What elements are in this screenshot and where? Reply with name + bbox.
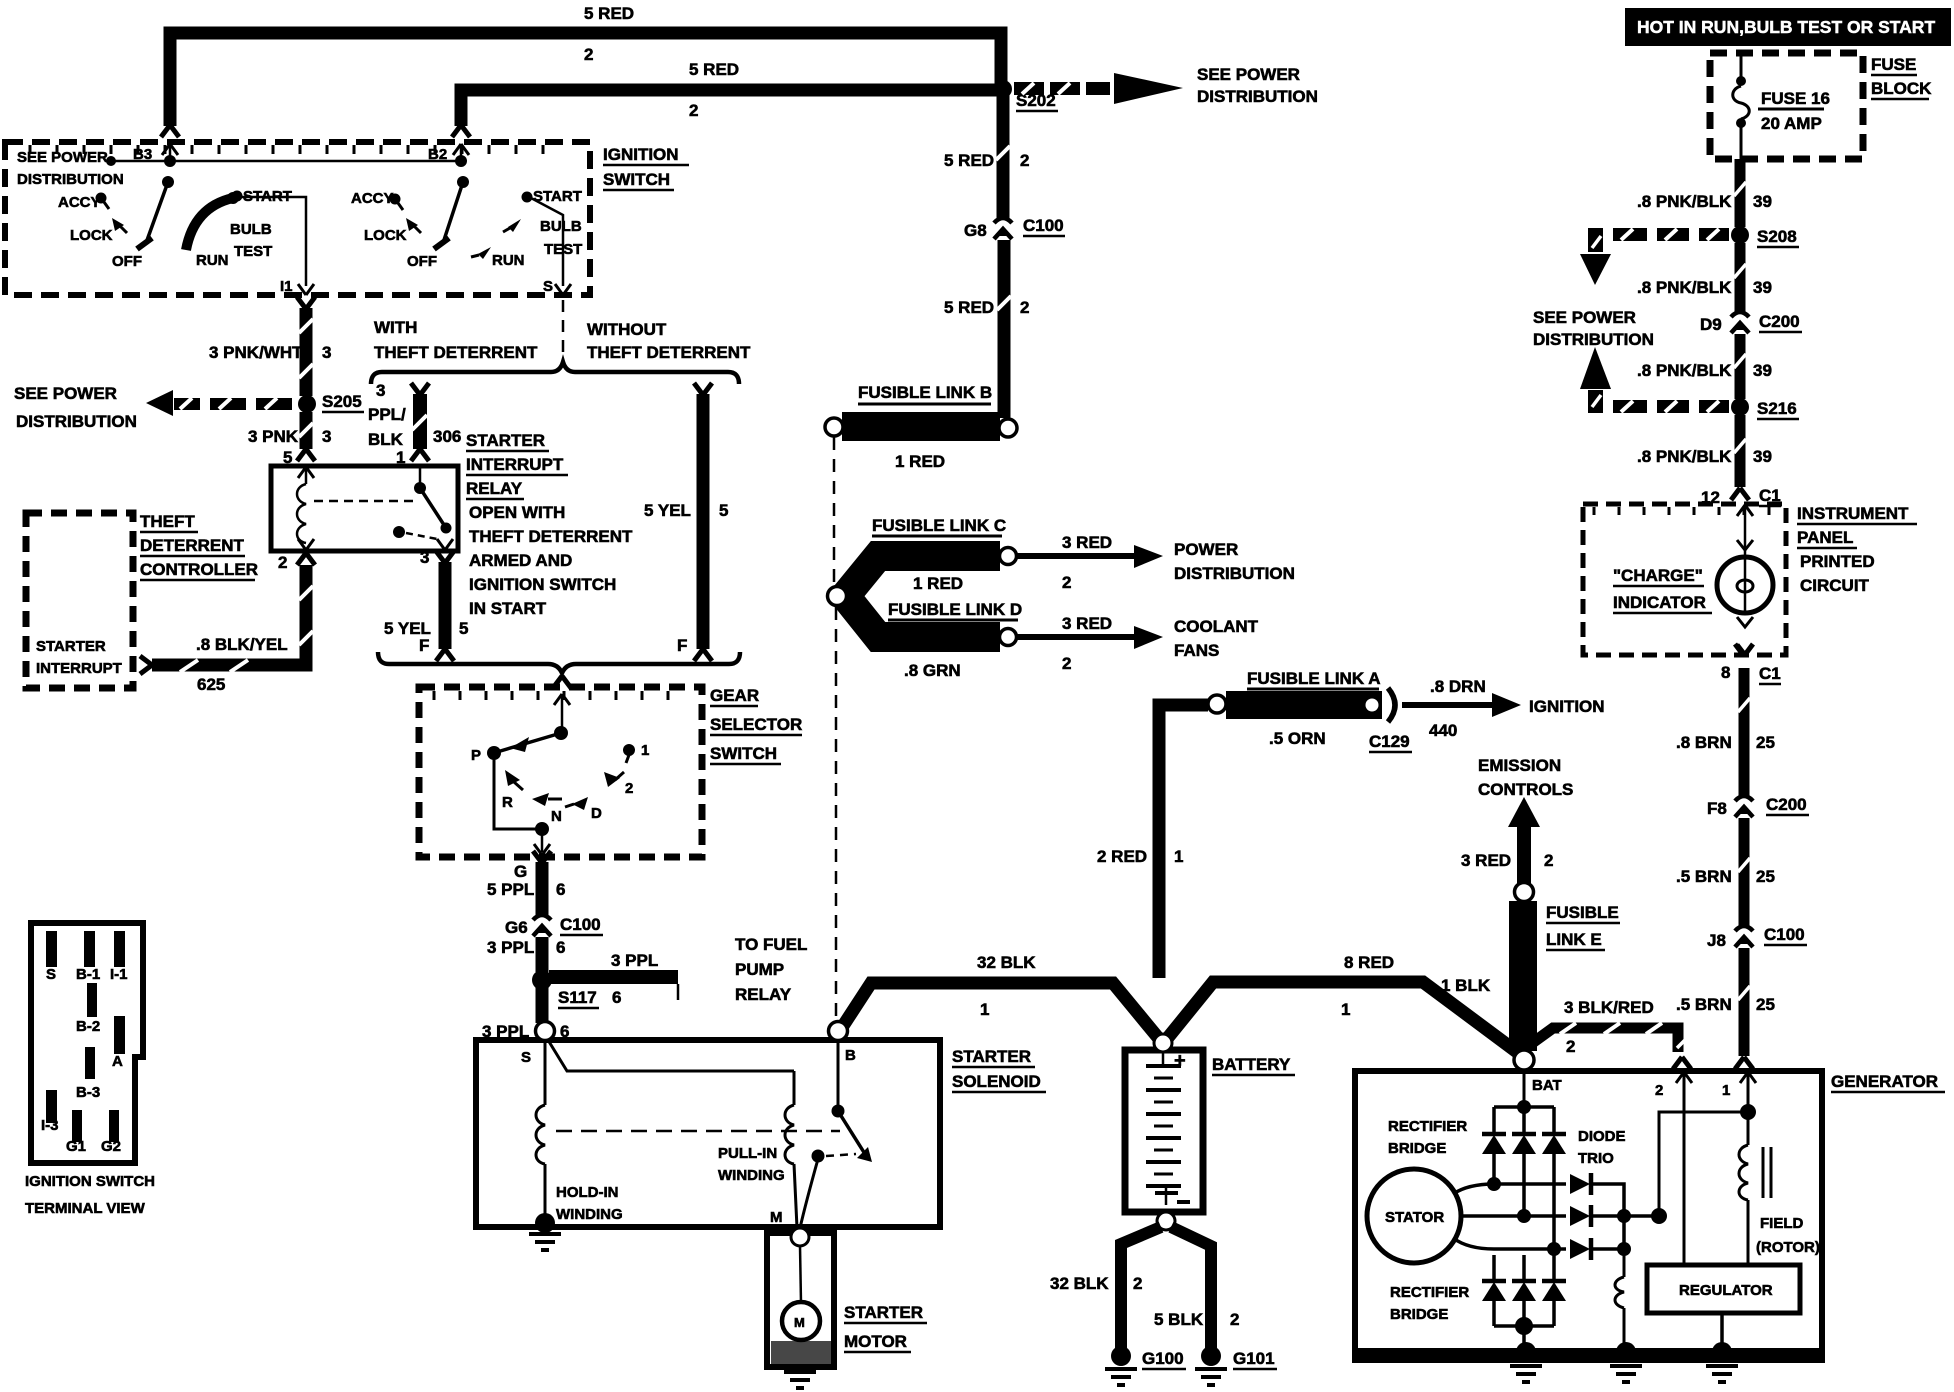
label .8 PNK/BLK 39 [1637,361,1772,380]
label 5 YEL 5 F (right) [644,501,728,655]
svg-text:M: M [794,1315,805,1330]
svg-text:RECTIFIER: RECTIFIER [1388,1118,1467,1135]
svg-text:3 BLK/RED: 3 BLK/RED [1564,998,1654,1017]
svg-text:WINDING: WINDING [556,1206,623,1223]
fuse FUSE 16 20 AMP [1733,53,1830,160]
svg-text:GEAR: GEAR [710,686,759,705]
ground solenoid [529,1234,561,1250]
wire stator phase 2 [1461,1209,1566,1223]
svg-text:39: 39 [1753,192,1772,211]
svg-text:5 YEL: 5 YEL [644,501,691,520]
svg-text:CONTROLLER: CONTROLLER [140,560,258,579]
wire 5 PPL gear selector to C100 [514,851,551,916]
ground starter motor [784,1372,816,1388]
svg-text:FUSE 16: FUSE 16 [1761,89,1830,108]
ground rectifier [1510,1342,1542,1382]
svg-text:LINK E: LINK E [1546,930,1602,949]
svg-text:OFF: OFF [407,253,437,270]
node B2 junction [455,155,469,188]
svg-text:INTERRUPT: INTERRUPT [466,455,564,474]
svg-text:2: 2 [1062,573,1071,592]
svg-text:5 RED: 5 RED [944,151,994,170]
svg-text:INSTRUMENT: INSTRUMENT [1797,504,1909,523]
diode rectifier top 3 [1542,1107,1566,1247]
wire hatched arrow S208 to power distribution [1580,228,1729,285]
connector C100 (G6) [505,915,603,937]
label 32 BLK 2 (ground leg) [1050,1274,1142,1293]
svg-text:2: 2 [278,553,287,572]
svg-text:2: 2 [689,101,698,120]
svg-text:5 PPL: 5 PPL [487,880,534,899]
svg-text:2: 2 [1020,151,1029,170]
svg-text:SOLENOID: SOLENOID [952,1072,1041,1091]
svg-text:2: 2 [1062,654,1071,673]
svg-text:440: 440 [1429,721,1457,740]
svg-text:.5 ORN: .5 ORN [1269,729,1326,748]
splice S117 [532,970,599,1008]
svg-text:PRINTED: PRINTED [1800,552,1875,571]
svg-text:3 PNK: 3 PNK [248,427,299,446]
ground G100 [1105,1346,1186,1385]
svg-text:B: B [845,1047,856,1064]
wire 3 PNK S205 to relay pin 5 [297,412,315,461]
svg-text:C129: C129 [1369,732,1410,751]
label 3 RED 2 (lower arrow) [1062,614,1112,673]
contact 2 [604,772,633,797]
diode rectifier bottom 2 [1512,1255,1536,1348]
svg-text:5 RED: 5 RED [689,60,739,79]
wire rectifier bottom bus [1494,1317,1554,1335]
svg-text:32 BLK: 32 BLK [1050,1274,1109,1293]
svg-text:5: 5 [719,501,728,520]
diode trio 3 [1570,1216,1631,1260]
svg-text:3 RED: 3 RED [1062,533,1112,552]
svg-text:SEE POWER: SEE POWER [1197,65,1300,84]
label FUSE BLOCK [1871,55,1932,99]
label WITHOUT THEFT DETERRENT [587,320,751,362]
svg-text:S: S [521,1049,531,1066]
svg-text:2: 2 [1566,1037,1575,1056]
svg-text:.8 DRN: .8 DRN [1430,677,1486,696]
svg-text:OPEN WITH: OPEN WITH [469,503,565,522]
svg-text:C200: C200 [1766,795,1807,814]
label 3 PPL/BLK 306 pin 1 [368,381,461,467]
svg-text:PANEL: PANEL [1797,528,1853,547]
svg-text:IN START: IN START [469,599,547,618]
label EMISSION CONTROLS [1478,756,1573,799]
label RECTIFIER BRIDGE (top) [1388,1118,1467,1157]
contact ACCY (left) [58,193,109,212]
svg-text:J8: J8 [1707,931,1726,950]
svg-text:39: 39 [1753,361,1772,380]
diode trio 1 [1570,1173,1624,1214]
label 5 RED 2 (upper) [944,151,1029,170]
fuse block box [1710,53,1863,159]
svg-text:C100: C100 [560,915,601,934]
label 3 PPL 6 [487,938,565,957]
svg-text:.8 PNK/BLK: .8 PNK/BLK [1637,361,1732,380]
terminal 1 generator [1722,1072,1756,1112]
svg-text:D9: D9 [1700,315,1722,334]
label 3 RED 2 (upper arrow) [1062,533,1112,592]
svg-text:6: 6 [556,938,565,957]
wire arrow .8 DRN to ignition [1402,693,1521,717]
wiper gear selector [497,733,561,752]
terminal B2 [428,125,470,163]
relay stationary contact [393,526,437,539]
svg-text:FUSIBLE LINK C: FUSIBLE LINK C [872,516,1006,535]
svg-text:1: 1 [1722,1082,1730,1099]
svg-text:B-3: B-3 [76,1084,100,1101]
terminal 2 generator [1655,1072,1692,1265]
svg-text:S117: S117 [558,988,597,1007]
svg-text:(ROTOR): (ROTOR) [1756,1239,1820,1256]
svg-text:IGNITION SWITCH: IGNITION SWITCH [25,1173,155,1190]
svg-text:BAT: BAT [1532,1077,1562,1094]
contact RUN wiper arc (left) [186,192,239,269]
svg-text:3 PPL: 3 PPL [611,951,658,970]
label FIELD (ROTOR) [1756,1215,1820,1256]
label INSTRUMENT PANEL PRINTED CIRCUIT [1797,504,1917,595]
svg-text:CONTROLS: CONTROLS [1478,780,1573,799]
svg-text:P: P [471,747,481,764]
connector C1 pin 8 below instrument panel [1721,644,1781,684]
wire stator phase 3 [1453,1238,1566,1256]
wire 3 PPL branch to fuel pump relay [549,951,678,1007]
wire START to S exit [531,198,571,295]
battery cells [1146,1052,1190,1205]
svg-text:S205: S205 [322,392,362,411]
wire dashed links C/D to solenoid B [835,607,838,1026]
label 5 RED (bus 2) [689,60,739,120]
terminal B solenoid [829,1022,857,1065]
node gear selector feed [554,726,568,740]
svg-text:D: D [591,805,602,822]
svg-text:DISTRIBUTION: DISTRIBUTION [1197,87,1318,106]
starter motor armature [782,1302,820,1340]
svg-text:DETERRENT: DETERRENT [140,536,245,555]
svg-text:INTERRUPT: INTERRUPT [36,660,122,677]
svg-text:G101: G101 [1233,1349,1275,1368]
svg-text:+: + [1174,1050,1186,1072]
terminal B-3 bar [76,1047,100,1101]
svg-text:HOT IN RUN,BULB TEST OR START: HOT IN RUN,BULB TEST OR START [1637,17,1935,37]
label .8 BRN 25 [1676,733,1775,752]
starter motor shading [771,1341,831,1364]
label 1 BLK [1441,976,1491,995]
svg-text:I1: I1 [280,278,293,295]
label IGNITION SWITCH [603,145,689,190]
svg-text:F: F [419,636,429,655]
wiper right wafer [443,182,463,243]
ignition switch terminal view outline [31,923,143,1163]
ticks instrument panel box top edge [1594,507,1769,515]
gear selector switch box [419,687,702,857]
svg-text:FUSIBLE LINK D: FUSIBLE LINK D [888,600,1022,619]
svg-text:MOTOR: MOTOR [844,1332,907,1351]
wire .8 PNK/BLK S216 to C1 [1734,415,1746,487]
svg-text:SWITCH: SWITCH [710,744,777,763]
label .8 GRN (link D) [904,661,961,680]
svg-text:2: 2 [1655,1082,1663,1099]
svg-text:32 BLK: 32 BLK [977,953,1036,972]
svg-text:TRIO: TRIO [1578,1150,1614,1167]
svg-text:5: 5 [459,619,468,638]
wire .8 BRN C1 to C200 [1738,668,1750,796]
label 3 BLK/RED 2 [1564,998,1654,1056]
svg-text:FUSIBLE LINK A: FUSIBLE LINK A [1247,669,1380,688]
svg-text:PPL/: PPL/ [368,405,406,424]
svg-text:LOCK: LOCK [364,227,407,244]
svg-text:BRIDGE: BRIDGE [1390,1306,1448,1323]
label 32 BLK 1 [977,953,1036,1019]
svg-text:CIRCUIT: CIRCUIT [1800,576,1870,595]
label SEE POWER DISTRIBUTION (left) [14,384,137,431]
splice S202 [994,80,1058,111]
fusible link C [842,516,1006,600]
field rotor coil [1739,1112,1748,1265]
svg-text:A: A [112,1053,123,1070]
svg-text:STARTER: STARTER [36,638,106,655]
wire hatched arrow S216 to power distribution [1580,347,1729,413]
label RECTIFIER BRIDGE (bottom) [1390,1284,1469,1323]
svg-text:OFF: OFF [112,253,142,270]
svg-text:RELAY: RELAY [735,985,792,1004]
label GEAR SELECTOR SWITCH [710,686,802,764]
wire 5 BLK battery to G101 [1171,1227,1211,1350]
label 3 PPL 6 (lower) [482,1022,569,1041]
svg-text:25: 25 [1756,995,1775,1014]
terminal M solenoid [770,1209,809,1246]
svg-text:2: 2 [1544,851,1553,870]
label POWER DISTRIBUTION [1174,540,1295,583]
starter solenoid box [476,1040,940,1227]
svg-text:BLOCK: BLOCK [1871,79,1932,98]
ground resistor [1610,1342,1642,1382]
wire .8 PNK/BLK C200 to S216 [1734,334,1746,399]
connector C200 (D9) [1700,312,1802,334]
svg-text:3 PPL: 3 PPL [487,938,534,957]
wire dashed link B to links C/D [833,437,836,585]
node B3 junction [162,155,176,188]
label 5 RED (bus 1) [584,4,634,64]
fusible link D [842,592,1022,637]
wire 3 PNK/WHT ignition I1 to S205 [297,297,315,396]
svg-text:DISTRIBUTION: DISTRIBUTION [17,171,124,188]
svg-text:COOLANT: COOLANT [1174,617,1259,636]
label COOLANT FANS [1174,617,1259,660]
label "CHARGE" INDICATOR [1613,566,1712,613]
svg-text:DISTRIBUTION: DISTRIBUTION [1533,330,1654,349]
node fusible link B left [825,418,843,436]
contact OFF (left) [112,238,152,270]
svg-text:"CHARGE": "CHARGE" [1613,566,1703,585]
svg-text:1: 1 [641,742,649,759]
diode rectifier top 2 [1512,1107,1536,1214]
svg-text:1 RED: 1 RED [895,452,945,471]
label .8 PNK/BLK 39 [1637,278,1772,297]
label SEE POWER DISTRIBUTION (right) [1533,308,1654,349]
node fusible link A left [1208,695,1226,713]
label IGNITION SWITCH TERMINAL VIEW [25,1173,155,1217]
svg-text:RECTIFIER: RECTIFIER [1390,1284,1469,1301]
wire 3 PPL C100 to S117 [536,937,549,972]
ticks gear selector box top edge [434,691,668,700]
svg-text:.8 BRN: .8 BRN [1676,733,1732,752]
svg-text:POWER: POWER [1174,540,1238,559]
solenoid switch contact [832,1041,873,1162]
label .8 BLK/YEL 625 [196,635,288,694]
svg-text:WITH: WITH [374,318,417,337]
wire .8 PNK/BLK S208 to C200 [1734,243,1746,312]
connector C1 pin 12 at instrument panel [1701,486,1781,507]
connector C200 (F8) [1707,795,1809,818]
wire 3 PPL/BLK 306 to relay pin 1 [411,383,429,461]
svg-text:S: S [46,966,56,983]
label GENERATOR [1831,1072,1945,1092]
hold-in winding [536,1040,794,1223]
theft deterrent controller box [26,513,133,688]
stator [1367,1169,1461,1263]
brace with/without theft deterrent [371,362,739,384]
label 1 RED (link B) [895,452,945,471]
svg-text:25: 25 [1756,867,1775,886]
svg-text:.8 PNK/BLK: .8 PNK/BLK [1637,192,1732,211]
label SEE POWER DISTRIBUTION (in box) [17,149,124,188]
label 1 RED (link C) [913,574,963,593]
svg-text:3: 3 [420,548,429,567]
svg-text:FUSIBLE: FUSIBLE [1546,903,1619,922]
svg-text:PUMP: PUMP [735,960,784,979]
svg-text:2 RED: 2 RED [1097,847,1147,866]
label WITH THEFT DETERRENT [374,318,538,362]
terminal G2 bar [101,1110,121,1155]
solenoid moving contact [800,1150,856,1229]
label 8 RED 1 [1341,953,1394,1019]
svg-text:LOCK: LOCK [70,227,113,244]
wire 5 RED bus to B3 [170,33,1001,126]
svg-text:39: 39 [1753,447,1772,466]
svg-text:3 RED: 3 RED [1062,614,1112,633]
svg-text:FANS: FANS [1174,641,1219,660]
svg-text:RELAY: RELAY [466,479,523,498]
diode rectifier bottom 1 [1482,1255,1506,1326]
svg-text:25: 25 [1756,733,1775,752]
contact LOCK (left) [70,218,127,244]
svg-text:IGNITION SWITCH: IGNITION SWITCH [469,575,616,594]
connector C100 (J8) [1707,925,1807,950]
svg-text:39: 39 [1753,278,1772,297]
contact BULB TEST (right) [503,218,582,258]
svg-text:C200: C200 [1759,312,1800,331]
svg-text:G1: G1 [66,1138,86,1155]
svg-text:2: 2 [625,780,633,797]
svg-text:TEST: TEST [234,243,272,260]
label STARTER INTERRUPT RELAY [466,431,633,618]
svg-text:THEFT: THEFT [140,512,195,531]
wire 5 RED C100 to fusible link B [997,240,1011,418]
label 3 PNK 3 pin 5 [248,427,331,467]
rectifier BAT bus [1494,1070,1554,1114]
contact 1 [623,742,649,763]
svg-text:SEE POWER: SEE POWER [14,384,117,403]
splice S216 [1731,398,1799,419]
diode rectifier bottom 3 [1542,1255,1566,1326]
svg-text:STARTER: STARTER [952,1047,1031,1066]
svg-text:I-3: I-3 [41,1117,59,1134]
wire 5 YEL relay pin 3 to F [420,548,454,661]
splice S208 [1731,226,1799,247]
svg-text:SWITCH: SWITCH [603,170,670,189]
wire START to I1 exit [241,197,314,295]
svg-text:8: 8 [1721,663,1730,682]
svg-text:BATTERY: BATTERY [1212,1055,1291,1074]
wire .5 BRN C200 to C100 [1738,818,1750,926]
wire .8 PNK/BLK fuse to S208 [1734,159,1746,227]
fusible link B [842,383,1000,441]
wire stator phase 1 [1453,1177,1566,1194]
relay mechanical link dashed [314,500,416,503]
terminal B3 [133,125,179,163]
svg-text:WINDING: WINDING [718,1167,785,1184]
svg-text:1 RED: 1 RED [913,574,963,593]
wire arrow 3 RED to emission controls [1508,797,1540,884]
wire .5 BRN C100 to generator [1738,948,1750,1056]
connector C100 (G8) [964,216,1065,240]
svg-text:1: 1 [1174,847,1183,866]
svg-text:5 BLK: 5 BLK [1154,1310,1204,1329]
terminal S bar [46,931,57,983]
node power tap [106,156,116,166]
label IGNITION [1529,697,1605,716]
svg-text:IGNITION: IGNITION [1529,697,1605,716]
wire 32 BLK battery to G100 [1121,1227,1161,1350]
svg-text:THEFT DETERRENT: THEFT DETERRENT [374,343,538,362]
indicator bulb [1717,505,1773,653]
svg-text:5 RED: 5 RED [584,4,634,23]
terminal B-1 bar [76,931,100,983]
label 5 YEL 5 F (left) [384,619,468,655]
label .8 PNK/BLK 39 [1637,192,1772,211]
diode trio 2 [1570,1205,1659,1227]
svg-text:625: 625 [197,675,225,694]
svg-text:DISTRIBUTION: DISTRIBUTION [1174,564,1295,583]
svg-text:5 RED: 5 RED [944,298,994,317]
label BATTERY [1212,1055,1295,1075]
label 2 RED 1 [1097,847,1183,866]
ground G101 [1195,1346,1277,1385]
wire M to motor [800,1246,801,1303]
svg-text:BLK: BLK [368,430,404,449]
svg-text:306: 306 [433,427,461,446]
label TO FUEL PUMP RELAY [735,935,807,1004]
contact ACCY (right) [351,190,403,210]
label STARTER MOTOR [844,1303,927,1352]
svg-text:3: 3 [322,427,331,446]
wire dashed from ignition S [562,300,565,360]
svg-text:.5 BRN: .5 BRN [1676,995,1732,1014]
svg-text:DISTRIBUTION: DISTRIBUTION [16,412,137,431]
terminal S solenoid [521,1022,555,1067]
svg-text:G2: G2 [101,1138,121,1155]
terminal I-3 bar [41,1090,59,1134]
connector gear selector top [553,676,571,731]
diode rectifier top 1 [1482,1107,1506,1182]
svg-text:.8 PNK/BLK: .8 PNK/BLK [1637,278,1732,297]
node solenoid ground junction [535,1213,555,1233]
contact R [502,770,523,811]
wire 5 RED S202 to C100 [996,95,1010,219]
